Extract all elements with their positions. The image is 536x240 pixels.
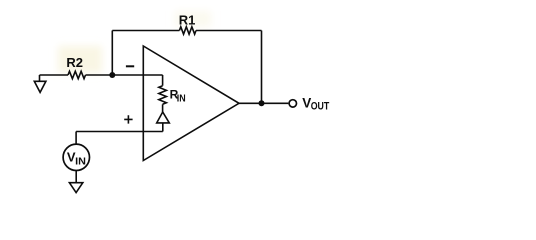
- ground (below VIN): [69, 183, 82, 193]
- wire: top feedback right segment: [196, 30, 262, 32]
- wire: arrow to non-inverting line: [162, 123, 164, 132]
- wire: feedback drop (right vertical): [261, 31, 263, 104]
- wire: R2 to inverting input (through junction): [86, 74, 163, 76]
- svg-text:IN: IN: [75, 156, 86, 167]
- wire: non-inverting input line: [76, 131, 163, 133]
- minus sign (inverting input): [126, 65, 134, 67]
- faint scan tint near R2: [58, 46, 102, 73]
- node: output junction: [259, 100, 265, 106]
- ground (left, at R2 input): [34, 75, 46, 92]
- resistor RIN: [159, 75, 186, 112]
- op-amp U1 input polarity marks: [124, 66, 134, 123]
- wire: top feedback left segment: [112, 30, 179, 32]
- wire: VIN to ground: [75, 171, 77, 183]
- arrow (RIN lower terminal): [157, 112, 170, 123]
- wire: op-amp output: [239, 102, 288, 104]
- svg-text:R2: R2: [66, 55, 83, 70]
- resistor R1: [179, 13, 196, 35]
- wire: feedback riser (left vertical): [111, 31, 113, 76]
- svg-text:OUT: OUT: [311, 100, 330, 112]
- svg-text:IN: IN: [177, 94, 186, 105]
- faint scan tint near R1: [175, 11, 211, 27]
- node: junction at inverting input: [109, 72, 115, 78]
- plus sign (non-inverting input): [124, 115, 132, 123]
- label VOUT: [302, 95, 329, 112]
- svg-text:R1: R1: [179, 13, 196, 28]
- wire: drop to VIN source: [75, 132, 77, 145]
- resistor R2: [66, 55, 85, 79]
- source VIN: [63, 144, 89, 170]
- terminal: VOUT open circle: [289, 100, 296, 107]
- op-amp U1 body: [143, 46, 239, 161]
- wire: ground corner to R2: [40, 74, 69, 76]
